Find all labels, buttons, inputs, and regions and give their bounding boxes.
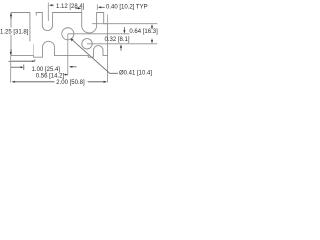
plate outline right of slot A <box>11 13 108 58</box>
text 1.25 [31.8] <box>0 28 28 35</box>
plate outline with three top slots, right step, bottom slots and dips <box>11 13 30 42</box>
left extension below plate <box>10 56 12 83</box>
svg-text:0.56 [14.2]: 0.56 [14.2] <box>36 73 65 79</box>
left dim 1.25 arrows on edge <box>10 13 12 19</box>
hole 1 centerline down to bottom dims <box>67 34 69 76</box>
svg-text:1.12 [28.4]: 1.12 [28.4] <box>56 4 85 10</box>
svg-text:1.25 [31.8]: 1.25 [31.8] <box>0 29 29 35</box>
svg-text:0.40 [10.2] TYP: 0.40 [10.2] TYP <box>106 4 148 10</box>
dim 0.64 up-arrow below step line <box>151 26 153 30</box>
extension above step corner <box>107 15 109 24</box>
dim 0.64 down-arrow above hole2 line <box>151 39 153 42</box>
step extension line to right dims <box>92 23 157 25</box>
dim 2.00 left arrow and line <box>12 81 15 83</box>
dim 1.00 outside right arrow at hole centerline <box>69 66 72 68</box>
dim row A line with outside-left arrow and end bar <box>9 61 11 62</box>
svg-text:Ø0.41 [10.4]: Ø0.41 [10.4] <box>119 71 152 77</box>
svg-text:2.00 [50.8]: 2.00 [50.8] <box>56 80 85 86</box>
hole 1 <box>62 28 74 40</box>
svg-text:1.00 [25.4]: 1.00 [25.4] <box>32 67 61 73</box>
faint inner vertical at left dip <box>33 44 35 55</box>
svg-text:0.64 [16.3]: 0.64 [16.3] <box>129 29 158 35</box>
dim 2.00 right line and arrow <box>88 81 106 83</box>
right extension below plate <box>107 56 109 83</box>
svg-text:0.32 [8.1]: 0.32 [8.1] <box>105 37 130 43</box>
dim 0.32 down-arrow at hole1 line <box>123 27 125 30</box>
dim 0.56 right arrow at hole centerline <box>64 74 66 76</box>
hole 1 centerline to right <box>68 33 130 35</box>
hole 2 centerline to right <box>87 43 157 45</box>
hole diameter leader with arrowhead at hole 1 edge <box>71 39 118 74</box>
hole 2 <box>82 39 92 49</box>
dim 1.12 extension bar into slot B and arrow <box>47 3 49 22</box>
dim 0.40 left arrow and extension bars <box>75 7 80 9</box>
dim row B short line arrow and bar <box>11 66 22 68</box>
dim 0.32 up-arrow at hole2 line <box>120 46 122 50</box>
